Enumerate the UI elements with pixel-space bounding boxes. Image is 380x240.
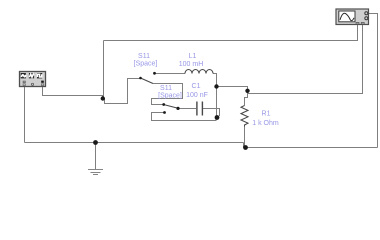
junction node B dot <box>214 84 218 88</box>
junction node C dot <box>245 89 249 93</box>
svg-text:S11: S11 <box>160 85 172 92</box>
terminal common <box>31 83 33 85</box>
wire: ground rail jog at R1 bottom <box>243 143 245 148</box>
scope bottom terminals <box>356 22 359 24</box>
junction node D dot <box>215 115 220 120</box>
function generator XFG1 icon <box>20 72 46 87</box>
wire: switch S11a upper throw to inductor <box>155 73 186 75</box>
wire: bottom ground rail right section <box>244 147 378 149</box>
wire: resistor R1 bottom lead to ground rail <box>244 127 246 148</box>
oscilloscope XSC1 icon <box>336 9 369 25</box>
switch S11b upper throw contact dot <box>162 103 165 106</box>
wire: node C jog down to resistor R1 top <box>245 91 248 106</box>
terminal + <box>41 81 44 83</box>
ground symbol <box>88 170 103 175</box>
wire: function generator - lead to node A <box>43 87 103 99</box>
svg-text:L1: L1 <box>189 53 197 60</box>
svg-text:S11: S11 <box>138 53 150 60</box>
switch S11a upper throw contact dot <box>153 72 156 75</box>
svg-text:[Space]: [Space] <box>158 93 182 100</box>
wire: node C to oscilloscope channel B <box>248 24 363 94</box>
wire: capacitor C1 left lead from switch S11b pole <box>178 108 196 110</box>
switch S11b pole contact dot <box>176 107 179 110</box>
wire: ground tap from rail down to ground symbol <box>95 143 97 170</box>
terminal - <box>23 81 25 83</box>
wire: bottom ground rail left section <box>25 142 244 144</box>
square button <box>37 73 42 78</box>
wire: riser from node A up to top rail <box>103 41 105 99</box>
wire: node B to node C <box>217 87 248 91</box>
wire: switch S11a lower throw routed loop to switch S11b upper throw <box>152 84 183 105</box>
switch S11a pole contact dot <box>139 77 142 80</box>
svg-text:C1: C1 <box>192 83 201 90</box>
switch S11b arm (closed to upper throw) <box>164 105 179 109</box>
triangle button <box>29 73 34 78</box>
wire: function generator + lead down to ground rail <box>24 87 26 143</box>
inductor L1 coil <box>185 70 213 74</box>
junction dot ground tap <box>93 140 98 145</box>
capacitor C1 plates <box>197 102 203 116</box>
wire: capacitor C1 right lead to node D <box>203 109 220 117</box>
junction node A dot <box>101 96 105 100</box>
svg-text:1 k Ohm: 1 k Ohm <box>252 120 279 127</box>
switch S11a arm (open from L1) <box>141 78 154 84</box>
wire: right riser to oscilloscope ground terminal <box>369 14 378 148</box>
wire: top rail to oscilloscope channel A <box>104 24 358 41</box>
junction dot R1 bottom on ground rail <box>243 145 248 150</box>
scope screen sine trace <box>340 13 354 20</box>
wire: switch S11b lower throw loop shorting capacitor <box>152 113 217 121</box>
sine button <box>21 73 26 78</box>
svg-text:100 mH: 100 mH <box>179 61 204 68</box>
svg-text:[Space]: [Space] <box>134 61 158 68</box>
resistor R1 zigzag <box>241 106 248 127</box>
wire: node A feed to switch S11a pole <box>105 79 141 104</box>
scope right terminals <box>365 12 368 15</box>
wire: inductor right lead and riser down through node B <box>213 74 217 118</box>
switch S11b lower throw contact dot <box>163 111 166 114</box>
svg-text:100 nF: 100 nF <box>186 92 208 99</box>
svg-text:R1: R1 <box>262 111 271 118</box>
